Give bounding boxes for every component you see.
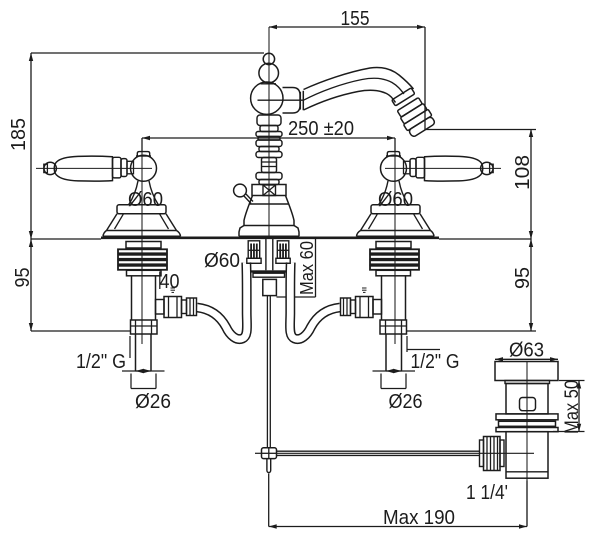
svg-text:108: 108 (512, 155, 534, 190)
svg-text:Ø26: Ø26 (135, 391, 171, 413)
svg-text:250 ±20: 250 ±20 (288, 118, 354, 140)
svg-text:1/2" G: 1/2" G (411, 351, 460, 373)
svg-text:Ø26: Ø26 (389, 391, 423, 413)
svg-text:155: 155 (341, 8, 370, 30)
svg-text:Ø60: Ø60 (128, 189, 163, 211)
svg-text:Ø60: Ø60 (204, 250, 240, 272)
svg-text:Max 190: Max 190 (383, 507, 455, 529)
svg-text:185: 185 (8, 118, 30, 151)
svg-text:1/2" G: 1/2" G (76, 351, 126, 373)
svg-text:Max 50: Max 50 (562, 380, 583, 434)
svg-text:Ø63: Ø63 (509, 340, 544, 362)
svg-text:40: 40 (160, 271, 180, 293)
svg-text:1 1/4': 1 1/4' (466, 482, 508, 504)
svg-text:95: 95 (12, 268, 34, 288)
svg-text:95: 95 (512, 267, 534, 289)
svg-text:Max 60: Max 60 (297, 241, 317, 295)
